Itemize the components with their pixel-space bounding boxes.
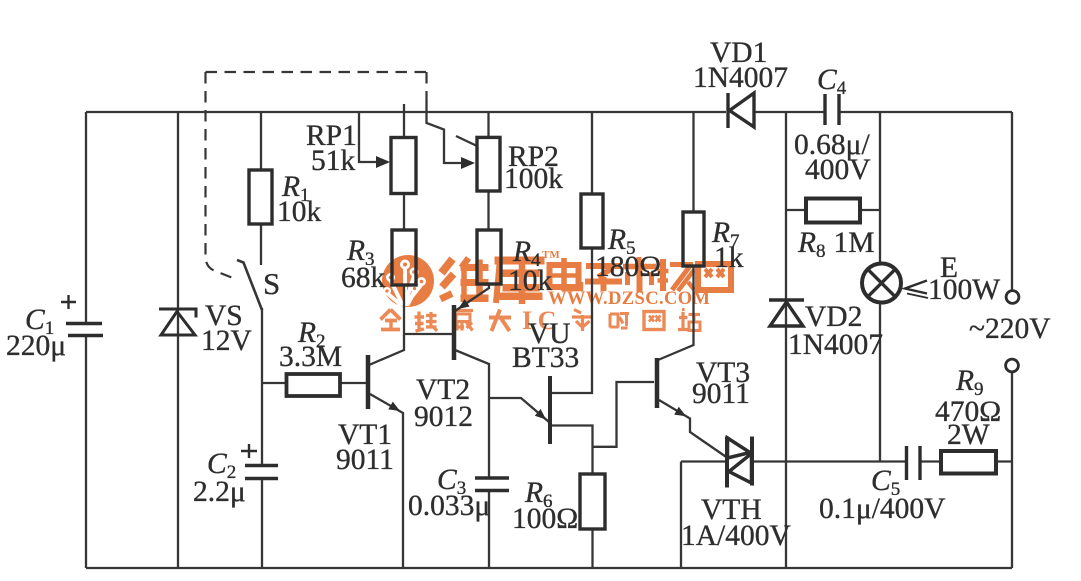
svg-text:51k: 51k (311, 145, 356, 177)
svg-text:400V: 400V (805, 154, 871, 186)
svg-text:100k: 100k (504, 163, 563, 195)
svg-text:10k: 10k (508, 265, 553, 297)
svg-text:C4: C4 (817, 64, 847, 99)
svg-text:68k: 68k (341, 262, 386, 294)
svg-text:180Ω: 180Ω (595, 251, 661, 283)
svg-text:2W: 2W (947, 419, 990, 451)
svg-text:9011: 9011 (336, 444, 394, 476)
svg-text:12V: 12V (201, 325, 252, 357)
svg-text:100Ω: 100Ω (512, 503, 578, 535)
svg-text:WWW.DZSC.COM: WWW.DZSC.COM (548, 289, 710, 309)
svg-text:2.2μ: 2.2μ (193, 476, 246, 508)
svg-text:TM: TM (542, 249, 560, 261)
svg-text:S: S (263, 266, 280, 301)
svg-text:3.3M: 3.3M (279, 341, 342, 373)
svg-text:0.1μ/400V: 0.1μ/400V (819, 493, 945, 525)
svg-text:9011: 9011 (692, 378, 750, 410)
svg-text:0.033μ: 0.033μ (408, 490, 490, 522)
svg-text:1N4007: 1N4007 (788, 329, 883, 361)
svg-text:100W: 100W (928, 274, 1000, 306)
svg-text:9012: 9012 (414, 401, 473, 433)
svg-text:BT33: BT33 (512, 342, 579, 374)
svg-text:1k: 1k (714, 242, 744, 274)
svg-text:1N4007: 1N4007 (693, 62, 788, 94)
svg-text:10k: 10k (277, 196, 322, 228)
svg-text:R9: R9 (955, 365, 984, 400)
svg-text:1A/400V: 1A/400V (681, 520, 791, 552)
svg-text:220μ: 220μ (6, 330, 66, 362)
svg-text:R81M: R81M (797, 227, 875, 262)
svg-text:~220V: ~220V (969, 313, 1051, 345)
